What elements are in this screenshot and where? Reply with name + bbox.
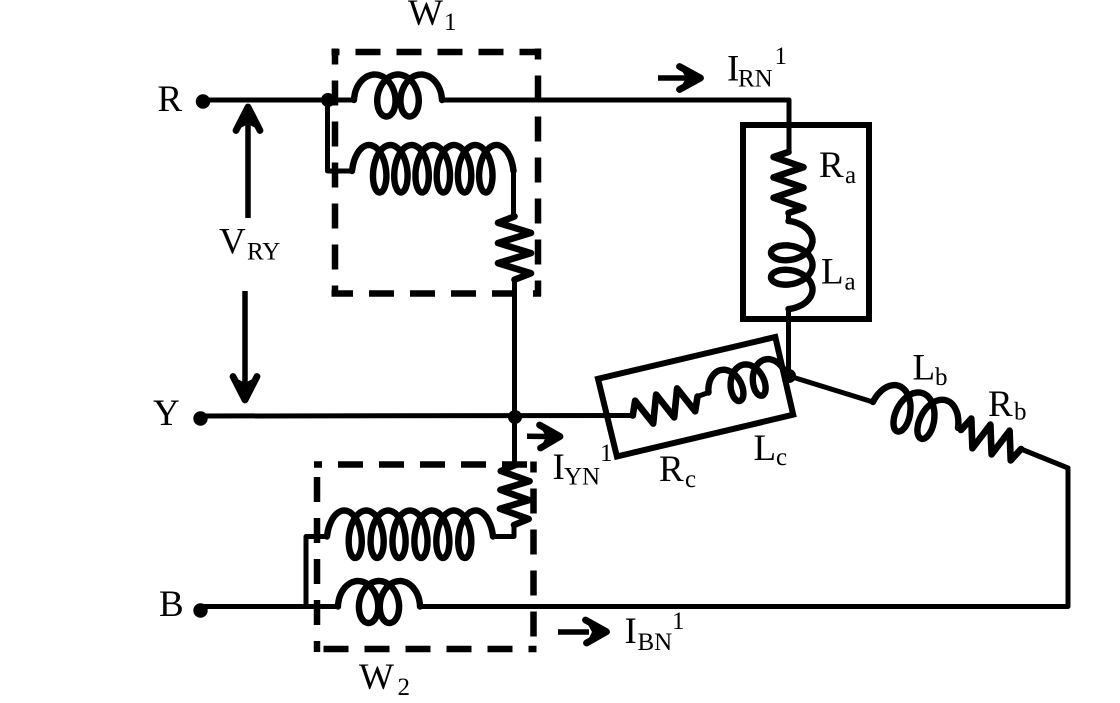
wire W2 coil stub to B line	[306, 537, 327, 607]
svg-text:1: 1	[600, 440, 613, 467]
svg-text:R: R	[659, 449, 684, 490]
wire W1 coil to resistor	[511, 171, 516, 217]
inductor La	[771, 221, 813, 309]
pressure coil W2	[327, 511, 493, 559]
svg-text:W: W	[359, 657, 394, 698]
svg-text:c: c	[776, 444, 787, 471]
svg-text:R: R	[988, 384, 1013, 425]
wire B line right segment and right riser	[420, 449, 1068, 607]
terminal dot Y	[193, 411, 207, 425]
wire R line right segment and drop to Ra	[442, 100, 789, 153]
svg-text:b: b	[1014, 399, 1027, 426]
arrow VRY up shaft	[245, 122, 251, 218]
svg-text:1: 1	[672, 608, 685, 635]
inductor Lb	[873, 385, 958, 439]
svg-text:RN: RN	[738, 66, 773, 93]
svg-text:c: c	[685, 466, 696, 493]
pressure coil W1	[352, 145, 514, 193]
svg-text:BN: BN	[638, 629, 673, 656]
arrow IBN shaft	[558, 629, 589, 635]
svg-text:1: 1	[444, 9, 457, 36]
resistor W2 (pressure circuit)	[500, 465, 530, 525]
dashed box W2 bottom edge	[314, 646, 537, 653]
wire W2 resistor to pressure coil	[493, 525, 514, 537]
arrow IBN head	[586, 620, 607, 643]
wire Y line	[201, 413, 633, 419]
wire Rc to Lc	[698, 393, 709, 397]
svg-text:2: 2	[398, 674, 411, 701]
load box a	[743, 125, 869, 319]
wire junction drop to W1 pressure coil	[328, 100, 353, 171]
svg-text:W: W	[408, 0, 443, 34]
svg-text:a: a	[845, 162, 856, 189]
resistor Rb	[961, 419, 1021, 461]
arrow VRY down shaft	[242, 291, 248, 386]
resistor Rc	[633, 388, 698, 423]
svg-text:a: a	[845, 269, 856, 296]
svg-text:R: R	[819, 145, 844, 186]
svg-text:V: V	[219, 222, 246, 263]
svg-text:YN: YN	[564, 464, 600, 491]
wire La to star node	[786, 309, 791, 376]
dashed box W1 bottom edge	[332, 290, 542, 297]
wire Lc to star node	[786, 374, 789, 376]
arrow IYN shaft	[527, 434, 548, 440]
terminal dot R	[196, 94, 210, 108]
svg-text:L: L	[821, 252, 844, 293]
svg-text:b: b	[935, 364, 948, 391]
svg-text:L: L	[913, 348, 936, 389]
current coil W2 (on B line)	[338, 581, 420, 623]
junction dot on Y line	[508, 410, 522, 424]
arrow IRN head	[680, 67, 701, 90]
svg-text:R: R	[158, 79, 183, 120]
tilted load box c	[598, 337, 793, 457]
wire W1 resistor down through Y to W2 resistor	[512, 280, 517, 466]
dashed box W1 top edge	[332, 49, 542, 56]
resistor Ra	[774, 152, 804, 213]
svg-text:Y: Y	[153, 393, 180, 434]
dashed box W1 left edge	[332, 49, 339, 297]
arrow IRN shaft	[658, 75, 687, 81]
current coil W1 (on R line)	[354, 75, 442, 117]
svg-text:L: L	[754, 428, 777, 469]
svg-text:I: I	[553, 447, 565, 488]
arrow VRY up head	[236, 107, 260, 131]
wire R line left segment	[203, 98, 354, 103]
wire Lb to Rb	[958, 428, 961, 430]
dashed box W2 right edge	[530, 462, 537, 653]
wire star node to Lb	[789, 376, 873, 402]
wire B line left segment	[203, 604, 338, 609]
svg-text:B: B	[159, 584, 184, 625]
terminal dot B	[193, 603, 207, 617]
junction dot on R line	[321, 93, 335, 107]
dashed box W1 right edge	[535, 49, 542, 297]
dashed box W2 left edge	[314, 462, 321, 653]
svg-text:I: I	[625, 611, 637, 652]
arrow VRY down head	[233, 377, 257, 401]
arrow IYN head	[540, 425, 561, 448]
resistor W1 (pressure circuit)	[498, 216, 531, 279]
dashed box W2 top edge	[314, 461, 537, 468]
wire Ra to La	[786, 213, 791, 222]
svg-text:1: 1	[775, 43, 788, 70]
inductor Lc	[708, 359, 786, 401]
svg-text:RY: RY	[247, 239, 280, 266]
star node dot	[782, 369, 796, 383]
